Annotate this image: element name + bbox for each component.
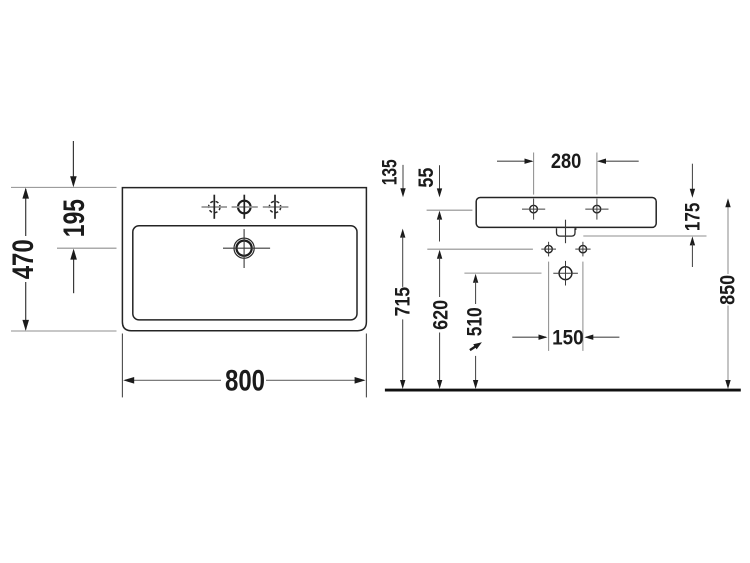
svg-text:150: 150 (552, 326, 584, 349)
svg-text:850: 850 (717, 275, 740, 305)
svg-text:195: 195 (58, 199, 91, 237)
svg-text:280: 280 (551, 150, 582, 173)
extension line drain level (195) (57, 247, 117, 249)
screw hole circle (553, 261, 578, 286)
dimension 135 arrow (402, 165, 404, 195)
bolt hole right (575, 242, 590, 257)
extension line 620 (bolt hole level) (427, 248, 533, 250)
ground line (385, 389, 741, 392)
faucet hole center (solid) (232, 195, 258, 219)
inner basin outline (133, 226, 357, 320)
svg-text:135: 135 (379, 159, 402, 185)
drain center line (565, 220, 567, 244)
faucet hole left (elevation) (522, 199, 545, 220)
faucet hole right (elevation) (585, 199, 608, 220)
drain hole double circle (223, 229, 270, 268)
extension line 510 (screw hole level) (464, 272, 541, 274)
svg-text:55: 55 (415, 167, 438, 187)
extension line 175 (drain level) (583, 235, 706, 237)
extension lines 150 (548, 262, 550, 351)
svg-text:620: 620 (429, 300, 452, 330)
svg-text:510: 510 (464, 307, 487, 336)
extension lines 800 (121, 334, 123, 398)
faucet hole left (dashed) (202, 195, 228, 219)
dimension 280 (497, 160, 532, 162)
dimension 470 line (25, 189, 27, 236)
outer rim outline (122, 188, 366, 331)
svg-text:715: 715 (392, 287, 415, 317)
dimension 800 line (125, 379, 221, 381)
washbasin body (476, 198, 656, 228)
dimension 175 arrows (691, 164, 693, 196)
dimension 150 (512, 336, 546, 338)
dimension 195 arrows (72, 141, 74, 185)
extension line 55 (hole level) (427, 209, 473, 211)
drain bracket inner tick (575, 228, 577, 230)
svg-text:470: 470 (7, 239, 40, 279)
svg-text:175: 175 (682, 202, 705, 231)
leader arrow below 510 (468, 340, 483, 353)
dimension 715 (400, 229, 405, 238)
extension lines 280 (533, 153, 535, 195)
dimension 620 (437, 250, 442, 259)
extension line top (470) (11, 186, 117, 188)
bolt hole left (541, 242, 556, 257)
dimension 55 arrows (439, 165, 441, 195)
svg-text:800: 800 (225, 364, 265, 397)
extension line bottom (470) (11, 330, 117, 332)
dimension 510 (473, 274, 478, 283)
dimension 850 (727, 201, 729, 275)
faucet hole right (dashed) (263, 195, 289, 219)
drain bracket below basin (557, 228, 576, 236)
